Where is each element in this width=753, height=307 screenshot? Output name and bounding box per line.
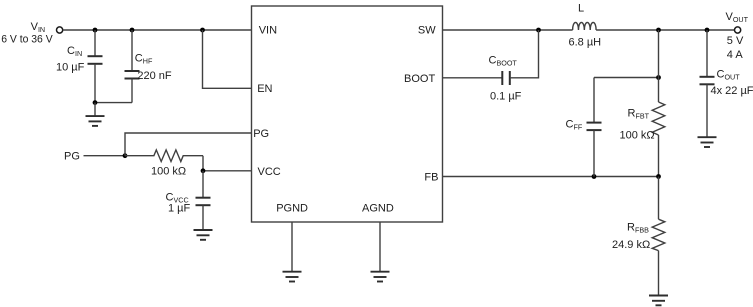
junction CHF tap: [130, 28, 135, 33]
svg-text:4x 22 µF: 4x 22 µF: [711, 85, 753, 97]
wire COUT drop: [706, 30, 708, 77]
ground RFBB: [649, 296, 668, 306]
capacitor CFF: [587, 78, 602, 177]
svg-text:220 nF: 220 nF: [137, 70, 172, 82]
svg-text:6.8 µH: 6.8 µH: [569, 36, 602, 48]
terminal VOUT: [735, 27, 741, 33]
inductor L: [573, 22, 597, 30]
svg-text:1 µF: 1 µF: [168, 203, 191, 215]
wire CHF return: [95, 102, 132, 104]
wire BOOT: [443, 77, 503, 79]
svg-text:0.1 µF: 0.1 µF: [490, 91, 522, 103]
wire FB to RFBB: [658, 177, 660, 220]
resistor RPG 100k: [125, 150, 203, 162]
svg-text:PG: PG: [64, 151, 80, 163]
junction CFF top: [656, 75, 661, 80]
svg-text:4 A: 4 A: [727, 49, 744, 61]
wire FB: [443, 176, 659, 178]
capacitor CBOOT: [502, 71, 510, 85]
svg-text:VIN: VIN: [259, 24, 277, 36]
junction VCC: [201, 168, 206, 173]
wire SW: [443, 29, 573, 31]
svg-text:VCC: VCC: [258, 166, 281, 178]
junction FB node: [656, 174, 661, 179]
svg-text:10 µF: 10 µF: [56, 61, 85, 73]
wire RPG to VCC pin: [203, 156, 252, 171]
svg-text:PGND: PGND: [276, 202, 308, 214]
IC U1 body: [252, 6, 443, 222]
svg-text:5 V: 5 V: [727, 35, 744, 47]
svg-text:AGND: AGND: [362, 202, 394, 214]
wire EN branch: [203, 30, 252, 88]
ground PGND: [283, 272, 302, 282]
ground CVCC: [194, 230, 213, 240]
svg-text:100 kΩ: 100 kΩ: [151, 165, 186, 177]
junction EN tap: [200, 28, 205, 33]
capacitor COUT: [700, 77, 715, 137]
wire RFBT to FB: [658, 135, 660, 177]
junction PG: [123, 153, 128, 158]
capacitor CVCC: [196, 171, 211, 230]
svg-text:PG: PG: [253, 128, 269, 140]
wire VIN rail: [63, 29, 252, 31]
junction COUT tap: [705, 28, 710, 33]
junction CIN tap: [93, 28, 98, 33]
wire CBOOT to SW: [510, 30, 539, 78]
resistor RFBT: [652, 102, 665, 135]
svg-text:SW: SW: [418, 24, 436, 36]
ground AGND: [371, 272, 390, 282]
capacitor CHF: [125, 30, 140, 103]
ground input: [86, 103, 105, 126]
junction divider tap: [656, 28, 661, 33]
svg-text:FB: FB: [424, 172, 438, 184]
wire PG to pin: [125, 133, 252, 156]
wire CFF top: [594, 77, 659, 79]
svg-text:24.9 kΩ: 24.9 kΩ: [612, 239, 650, 251]
junction CFF bottom: [592, 174, 597, 179]
svg-text:L: L: [578, 3, 584, 15]
junction input ground node: [93, 100, 98, 105]
junction CBOOT tap: [536, 28, 541, 33]
svg-text:100 kΩ: 100 kΩ: [620, 130, 655, 142]
wire RFBB to ground: [658, 251, 660, 296]
wire PG: [84, 155, 126, 157]
wire divider top: [658, 30, 660, 102]
wire AGND: [379, 222, 381, 272]
ground COUT: [698, 137, 717, 147]
svg-text:6 V to 36 V: 6 V to 36 V: [1, 33, 53, 45]
terminal VIN: [57, 27, 63, 33]
wire L to VOUT: [596, 29, 734, 31]
capacitor CIN: [88, 30, 103, 103]
wire PGND: [291, 222, 293, 272]
svg-text:EN: EN: [257, 83, 272, 95]
resistor RFBB: [652, 219, 665, 250]
svg-text:BOOT: BOOT: [404, 73, 435, 85]
